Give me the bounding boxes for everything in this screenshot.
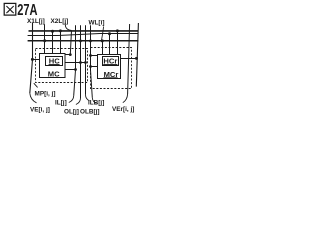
svg-text:VEr[i, j]: VEr[i, j] <box>112 106 134 113</box>
bus line H1 (X-related horizontal) <box>29 30 139 32</box>
tie right rail to MCr box <box>121 58 137 60</box>
dot and tie IL to MC <box>74 68 77 71</box>
MP label leader tick <box>34 83 38 87</box>
dot and tie cluster to MCr top <box>89 54 92 57</box>
tie X2L line to MC box <box>65 54 70 56</box>
X2L leader curve into cluster <box>65 23 71 31</box>
OL vertical <box>80 25 82 98</box>
junction dot OLB line on H3 <box>89 40 92 43</box>
dashed box MPr right <box>91 48 132 89</box>
X feed vertical with dot on H1 <box>52 31 54 54</box>
X1L feed vertical <box>44 24 46 53</box>
junction dot X2L line at MC tie <box>69 53 72 56</box>
X feed vertical 2 with dot on H1 <box>60 31 62 54</box>
memory cell MCr box <box>98 55 121 79</box>
feed vertical into HCr from H1 with dot <box>117 31 119 55</box>
bus line H2 <box>28 34 139 36</box>
ILB leader curve <box>86 95 90 101</box>
IL vertical <box>74 25 76 96</box>
VEr vertical <box>128 24 130 94</box>
feed vertical into HCr from H2 with dot <box>109 34 111 55</box>
svg-text:WL[i]: WL[i] <box>89 20 105 27</box>
X2L cluster vertical <box>70 30 71 54</box>
tie OL/ILB to MC with dots <box>65 62 86 64</box>
junction dot left rail <box>31 58 34 61</box>
svg-text:X1L[j]: X1L[j] <box>27 18 45 25</box>
left rail vertical <box>30 23 33 94</box>
svg-text:ILB[j]: ILB[j] <box>88 100 104 107</box>
OL leader curve <box>76 98 81 105</box>
svg-text:27A: 27A <box>17 2 37 19</box>
OLB vertical <box>91 25 93 97</box>
ILB vertical <box>85 25 87 94</box>
svg-text:VE[i, j]: VE[i, j] <box>30 107 50 114</box>
svg-text:IL[j]: IL[j] <box>55 100 67 107</box>
svg-text:OLB[j]: OLB[j] <box>80 109 100 116</box>
feed vertical into HCr from H3 with dot <box>102 41 104 55</box>
svg-text:OL[j]: OL[j] <box>64 109 79 116</box>
IL leader curve <box>69 96 74 103</box>
holding circuit HC box <box>46 57 63 66</box>
tie left rail to MC box <box>32 59 39 61</box>
title glyph ZU (figure) drawn box <box>4 3 16 15</box>
dot and tie OLB to MCr <box>89 65 92 68</box>
memory cell MC box <box>40 54 66 78</box>
junction dot OL line on H3 <box>79 40 82 43</box>
holding circuit HCr box <box>103 57 119 66</box>
WL leader <box>102 27 104 41</box>
right rail vertical <box>136 23 138 87</box>
junction dot X1L line on H3 <box>43 39 46 42</box>
left rail VE leader curve <box>30 93 37 103</box>
VEr leader curve <box>123 94 128 103</box>
dashed box MP left <box>36 49 88 83</box>
svg-text:MP[i, j]: MP[i, j] <box>35 91 56 98</box>
svg-text:X2L[j]: X2L[j] <box>51 18 69 25</box>
junction dot right rail <box>135 57 138 60</box>
OLB leader curve <box>92 98 96 104</box>
bus line H3 (word line WL) <box>28 40 139 42</box>
